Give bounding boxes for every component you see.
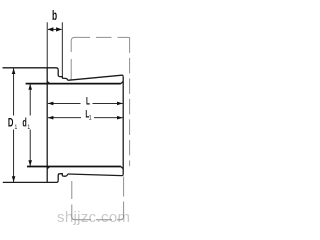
d1 arrowhead up [28,84,32,90]
L1 line right segment [94,117,123,119]
L1 arrowhead right [117,116,123,120]
label d1 [22,117,30,131]
sleeve right face [122,77,124,174]
b arrow line [48,28,62,30]
sleeve taper top [68,75,124,80]
D1 arrowhead up [12,68,16,74]
svg-text:shjjzc.com: shjjzc.com [57,209,130,226]
sleeve left face [46,68,48,183]
sleeve lip right wall bottom [58,174,60,181]
sleeve outline [3,68,124,183]
D1 arrowhead down [12,176,16,182]
sleeve step floor top [64,78,68,80]
sleeve bore top line + d1 top extension [26,83,121,85]
b arrowhead left [48,27,54,31]
b right extension line [61,22,63,77]
sleeve taper bottom [68,174,124,176]
svg-text:1: 1 [15,124,18,131]
svg-text:1: 1 [27,124,30,131]
L1 line left segment [48,117,81,119]
sleeve groove floor bottom [60,174,64,177]
dimension D1 [12,68,16,182]
sleeve groove floor top [60,77,64,79]
L arrowhead left [48,102,54,106]
label L1 [85,108,91,122]
svg-text:L: L [86,95,90,107]
dimension d1 [28,84,32,166]
d1 stem lower [29,130,31,167]
dimension L [48,102,123,106]
phantom bottom-left corner [72,217,75,220]
sleeve bore top chamfer left [47,81,49,83]
L arrowhead right [117,102,123,106]
label D1 [8,117,17,131]
sleeve step floor bottom [64,174,68,176]
phantom top-left rounded corner [71,37,75,41]
phantom bearing top outline (dashed) [71,37,129,166]
phantom bottom-left edge [71,181,73,217]
sleeve bore bottom chamfer right [121,167,123,169]
D1 stem upper [13,68,15,115]
d1 arrowhead down [28,160,32,166]
dimension b [47,22,62,77]
phantom bottom edge [75,219,121,221]
svg-text:D: D [8,117,14,130]
phantom right edge [129,37,131,166]
sleeve bore bottom chamfer left [47,167,49,169]
L line right segment [93,102,123,104]
L line left segment [48,102,81,104]
L1 arrowhead left [48,116,54,120]
sleeve lip top + D1 top extension line [3,68,59,70]
d1 stem upper [29,84,31,116]
b arrowhead right [56,27,62,31]
dimension L1 [48,116,123,120]
b left extension line [46,22,48,68]
sleeve lip right wall top [58,70,60,77]
D1 stem lower [13,130,15,183]
phantom bearing bottom outline (dashed) [72,177,124,220]
phantom left edge [70,41,72,80]
svg-text:1: 1 [89,115,92,122]
phantom top edge [75,36,130,38]
sleeve lip bottom + D1 bottom extension line [3,180,58,182]
phantom bottom-right corner [121,217,124,220]
phantom bottom-right edge [123,177,125,217]
svg-text:b: b [52,9,57,24]
sleeve bore bottom line + d1 bottom extension [27,166,121,168]
sleeve bore top chamfer right [121,81,123,83]
svg-text:d: d [22,117,26,130]
